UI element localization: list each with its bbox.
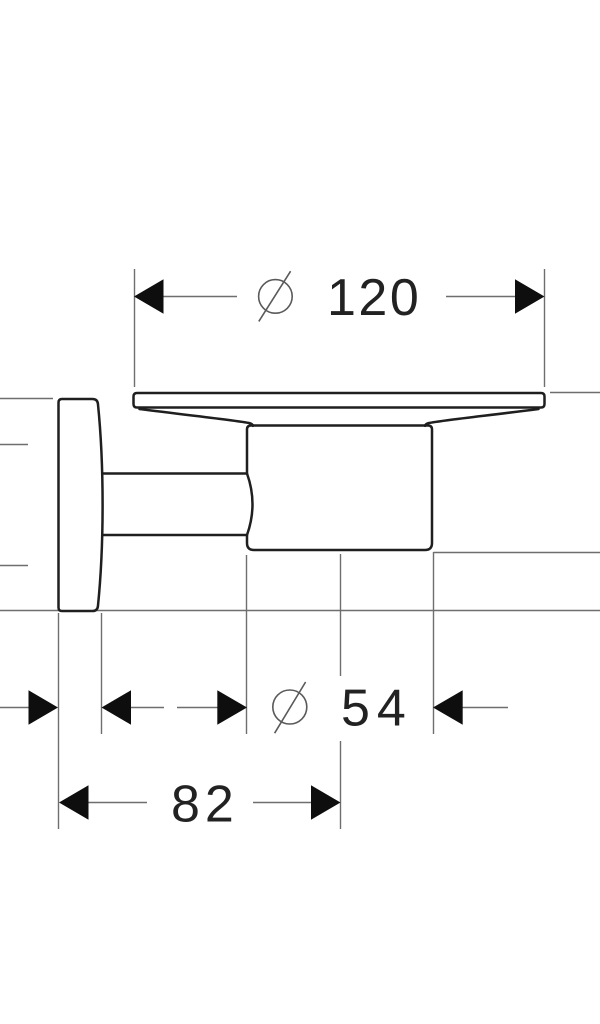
svg-text:54: 54 — [341, 680, 413, 738]
svg-text:120: 120 — [327, 269, 421, 327]
svg-text:82: 82 — [171, 776, 239, 834]
